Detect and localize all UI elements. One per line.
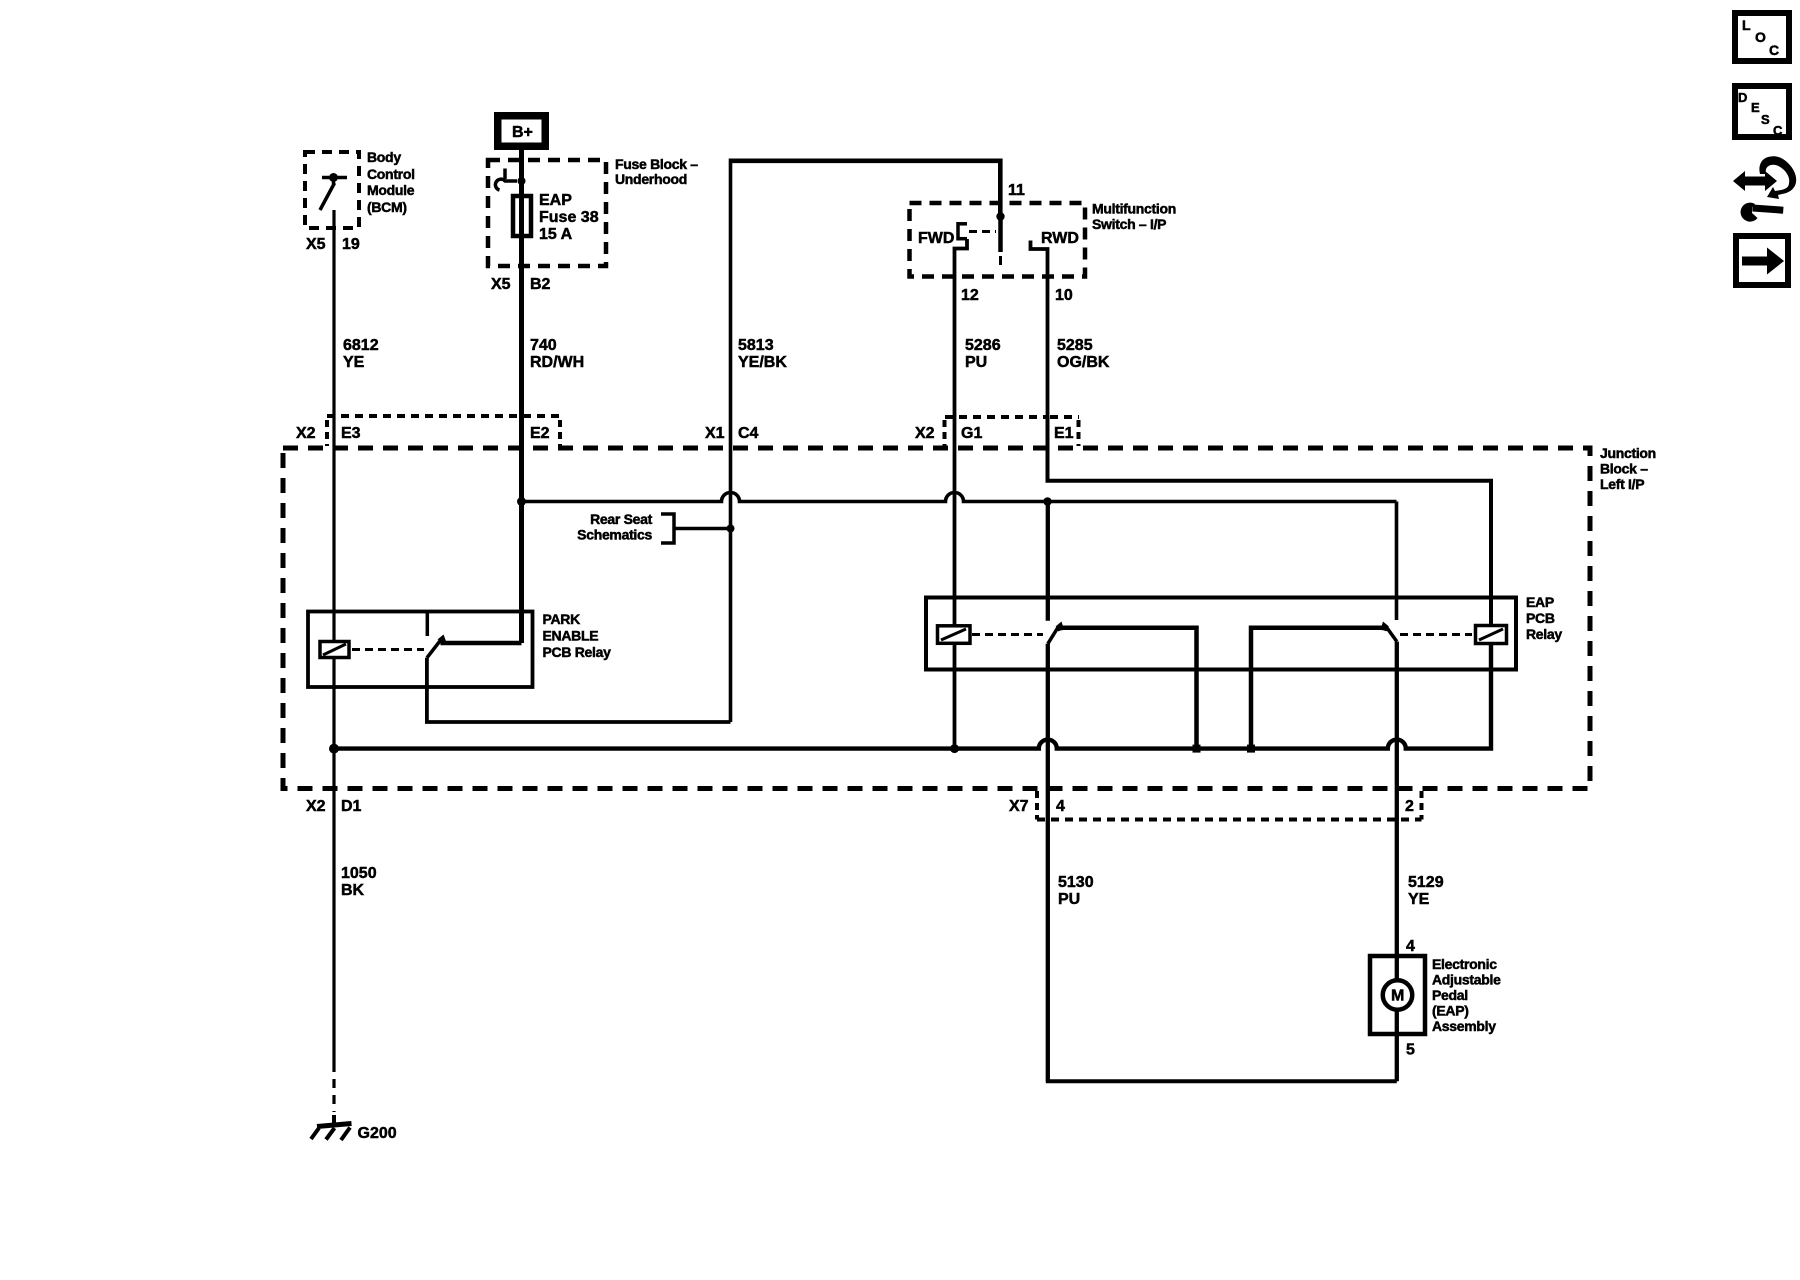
switch pole arm pin 11: [998, 217, 1003, 253]
RWD contact: [1031, 241, 1048, 417]
FWD linkage dashes: [969, 230, 996, 233]
svg-text:5813: 5813: [738, 337, 774, 354]
svg-text:Assembly: Assembly: [1432, 1018, 1496, 1034]
svg-text:Fuse Block –: Fuse Block –: [615, 156, 698, 172]
junction block label: [1600, 445, 1656, 492]
EAP relay left coil: [938, 626, 971, 644]
bus square joint right bar: [1247, 745, 1255, 753]
svg-text:D1: D1: [341, 798, 362, 815]
svg-text:X1: X1: [705, 425, 725, 442]
EAP PCB Relay box: [926, 598, 1516, 670]
right linkage dashes: [1400, 633, 1472, 636]
wire 6812 vertical: [332, 210, 335, 749]
svg-text:G200: G200: [358, 1125, 397, 1142]
svg-text:11: 11: [1008, 182, 1025, 199]
svg-text:5130: 5130: [1058, 874, 1094, 891]
ground bus with hops: [334, 644, 1491, 749]
svg-text:FWD: FWD: [918, 230, 954, 247]
svg-text:X2: X2: [306, 798, 326, 815]
wire 5129 (right pivot down to motor): [1395, 642, 1399, 1082]
svg-text:B2: B2: [530, 276, 551, 293]
svg-text:S: S: [1761, 112, 1770, 127]
svg-text:C4: C4: [738, 425, 759, 442]
wire FWD to pin 12: [955, 239, 968, 416]
junction dot at clip: [518, 177, 526, 185]
right switch throw bar: [1251, 628, 1388, 749]
svg-text:5129: 5129: [1408, 874, 1444, 891]
fuse block label: [615, 156, 698, 187]
Multifunction Switch dashed box: [910, 203, 1086, 277]
left switch throw bar: [1057, 628, 1197, 749]
svg-text:E1: E1: [1054, 425, 1074, 442]
svg-text:PU: PU: [1058, 891, 1080, 908]
icon LOC button: [1735, 13, 1789, 61]
right switch fixed stub: [1395, 502, 1399, 621]
svg-text:Body: Body: [367, 149, 401, 165]
wire 5286 vertical: [953, 416, 957, 749]
svg-text:YE: YE: [1408, 891, 1430, 908]
svg-text:ENABLE: ENABLE: [543, 628, 599, 644]
svg-text:Left I/P: Left I/P: [1600, 476, 1644, 492]
svg-text:Relay: Relay: [1526, 626, 1562, 642]
Body Control Module (BCM) dashed box: [305, 152, 359, 228]
svg-text:X7: X7: [1009, 798, 1029, 815]
park relay coil: [320, 642, 349, 658]
svg-text:Schematics: Schematics: [577, 527, 652, 543]
svg-text:(EAP): (EAP): [1432, 1003, 1469, 1019]
svg-text:Fuse 38: Fuse 38: [539, 209, 599, 226]
wire 5813 vertical: [729, 159, 733, 723]
park relay linkage dashes: [352, 648, 424, 651]
Rear Seat Schematics label: [577, 511, 652, 543]
svg-text:OG/BK: OG/BK: [1057, 354, 1110, 371]
BCM output driver symbol: [320, 178, 347, 211]
Fuse Block - Underhood dashed box: [488, 160, 606, 266]
right switch armature: [1386, 627, 1397, 642]
svg-text:Multifunction: Multifunction: [1092, 201, 1176, 217]
svg-text:RWD: RWD: [1041, 230, 1079, 247]
svg-text:12: 12: [961, 287, 979, 304]
rear seat bracket: [661, 514, 731, 543]
wire 5813 top segment to multifunction switch: [731, 161, 1001, 217]
PARK ENABLE PCB Relay box: [308, 612, 533, 688]
EAP assembly label: [1432, 956, 1501, 1034]
svg-text:M: M: [1391, 988, 1404, 1005]
svg-text:5286: 5286: [965, 337, 1001, 354]
svg-text:2: 2: [1405, 798, 1414, 815]
bus junction dot at coil: [950, 744, 959, 753]
clip terminal symbol: [495, 169, 517, 191]
svg-text:YE/BK: YE/BK: [738, 354, 787, 371]
svg-text:E: E: [1751, 100, 1760, 115]
svg-text:X2: X2: [915, 425, 935, 442]
svg-text:Underhood: Underhood: [615, 171, 687, 187]
svg-text:740: 740: [530, 337, 557, 354]
svg-text:E3: E3: [341, 425, 361, 442]
svg-text:YE: YE: [343, 354, 365, 371]
svg-text:D: D: [1738, 90, 1747, 105]
svg-text:PCB Relay: PCB Relay: [543, 644, 612, 660]
X7 connector strip: [1037, 791, 1422, 820]
left linkage dashes: [972, 633, 1043, 636]
svg-text:Junction: Junction: [1600, 445, 1656, 461]
svg-text:C: C: [1773, 123, 1783, 138]
svg-text:G1: G1: [961, 425, 982, 442]
Junction Block - Left I/P dashed outline: [283, 448, 1590, 789]
svg-text:EAP: EAP: [539, 192, 572, 209]
wire E1 jog to EAP coil: [1048, 416, 1492, 626]
park relay common drop to 5813: [427, 658, 731, 722]
EAP assembly motor box: [1370, 956, 1425, 1034]
svg-text:19: 19: [342, 236, 360, 253]
motor M circle: [1383, 980, 1413, 1010]
svg-text:10: 10: [1055, 287, 1073, 304]
EAP relay label: [1526, 594, 1562, 642]
wire 1050 BK solid: [332, 749, 335, 1063]
bus square joint left bar: [1193, 745, 1201, 753]
EAP relay right coil: [1476, 626, 1507, 644]
park relay feed horizontal: [441, 641, 522, 646]
svg-text:Pedal: Pedal: [1432, 987, 1468, 1003]
svg-text:X2: X2: [296, 425, 316, 442]
svg-text:Control: Control: [367, 166, 415, 182]
svg-text:15 A: 15 A: [539, 226, 573, 243]
park relay label: [543, 611, 612, 660]
connector strip G1/E1 dotted box: [945, 417, 1080, 446]
junction dot feed/E1 stub: [1043, 497, 1052, 506]
bus junction dot at 1050: [329, 744, 339, 754]
svg-text:1050: 1050: [341, 865, 377, 882]
wire 5130 (left pivot down to bottom): [1046, 644, 1050, 1081]
multifunction switch label: [1092, 201, 1176, 233]
svg-text:E2: E2: [530, 425, 550, 442]
svg-text:PU: PU: [965, 354, 987, 371]
svg-text:4: 4: [1406, 938, 1415, 955]
svg-text:5285: 5285: [1057, 337, 1093, 354]
svg-text:X5: X5: [306, 236, 326, 253]
left switch fixed stub: [1046, 502, 1050, 621]
svg-text:6812: 6812: [343, 337, 379, 354]
fuse EAP Fuse 38 15A: [513, 196, 531, 236]
svg-text:Module: Module: [367, 182, 415, 198]
svg-text:L: L: [1742, 17, 1751, 33]
svg-text:Rear Seat: Rear Seat: [590, 511, 653, 527]
svg-text:C: C: [1769, 42, 1779, 58]
svg-text:PARK: PARK: [543, 611, 581, 627]
B+ battery feed box: [494, 112, 549, 150]
park relay armature: [427, 639, 442, 658]
svg-text:BK: BK: [341, 882, 365, 899]
svg-text:PCB: PCB: [1526, 610, 1555, 626]
svg-text:(BCM): (BCM): [367, 199, 407, 215]
svg-text:5: 5: [1406, 1042, 1415, 1059]
left switch armature: [1048, 627, 1059, 644]
wire B+ to fuse (740 feed): [519, 149, 524, 643]
svg-text:RD/WH: RD/WH: [530, 354, 584, 371]
svg-text:Block –: Block –: [1600, 461, 1648, 477]
svg-text:4: 4: [1056, 798, 1065, 815]
svg-text:B+: B+: [512, 124, 533, 141]
svg-text:Electronic: Electronic: [1432, 956, 1497, 972]
park relay fixed contact stub: [426, 612, 430, 637]
BCM label: [367, 149, 415, 215]
FWD contact: [958, 222, 967, 241]
icon compare (double arrow, loop arrow, wrench): [1733, 156, 1796, 221]
svg-text:Adjustable: Adjustable: [1432, 972, 1501, 988]
connector strip E3/E2 dotted box: [327, 416, 560, 446]
svg-text:X5: X5: [491, 276, 511, 293]
svg-text:O: O: [1755, 29, 1766, 45]
wire 1050 BK dashed tail: [332, 1063, 335, 1112]
motor bottom wire U: [1046, 1079, 1397, 1083]
junction dot rear seat / 5813: [727, 525, 735, 533]
junction dot on 740: [517, 497, 526, 506]
svg-text:Switch – I/P: Switch – I/P: [1092, 216, 1166, 232]
svg-text:EAP: EAP: [1526, 594, 1554, 610]
feed wire from 740 with hops: [522, 493, 1397, 502]
ground G200 symbol: [311, 1115, 352, 1140]
icon DESC button: [1735, 86, 1789, 138]
icon continue button (right arrow): [1736, 236, 1788, 285]
